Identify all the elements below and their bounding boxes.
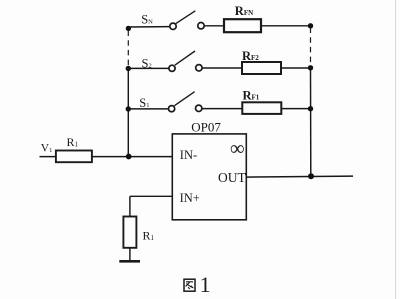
switch SN [170, 11, 204, 30]
switch S2 [169, 51, 202, 71]
svg-text:∞: ∞ [230, 138, 245, 160]
wire [128, 26, 169, 28]
node output [308, 173, 314, 179]
wire [202, 67, 242, 69]
wire right vertical dashed [310, 28, 312, 66]
wire [92, 156, 172, 158]
wire [281, 67, 311, 69]
resistor RF1 [242, 102, 281, 114]
resistor RF2 [242, 62, 281, 74]
wire left vertical solid [127, 69, 129, 157]
op-amp U1 OP07 [172, 134, 246, 220]
resistor R1 [56, 151, 92, 163]
wire [128, 67, 169, 69]
wire [281, 108, 310, 110]
wire left vertical dashed [127, 31, 129, 67]
ground [119, 260, 140, 263]
node row1 left [126, 26, 131, 31]
wire [129, 248, 131, 261]
wire right vertical solid [310, 68, 312, 176]
wire output [246, 176, 353, 177]
wire [202, 108, 242, 110]
svg-text:OP07: OP07 [191, 120, 221, 135]
caption figure 1 glyph tu [184, 279, 195, 291]
resistor R1 ground leg [123, 217, 136, 248]
wire IN+ horizontal [130, 195, 172, 197]
node IN- summing junction [126, 154, 132, 160]
node row2 right [308, 65, 313, 70]
node row1 right [308, 23, 313, 28]
wire [204, 25, 224, 27]
node row3 right [308, 106, 313, 111]
wire [128, 108, 168, 110]
svg-text:IN-: IN- [180, 148, 197, 162]
wire IN+ down to R1 [129, 196, 131, 216]
wire [261, 25, 311, 27]
svg-text:OUT: OUT [218, 170, 246, 185]
node row2 left [126, 66, 131, 71]
wire [40, 156, 56, 158]
resistor RFN [224, 19, 261, 32]
svg-text:IN+: IN+ [180, 191, 200, 205]
svg-text:1: 1 [200, 272, 211, 297]
node row3 left [126, 106, 131, 111]
switch S1 [169, 92, 202, 112]
